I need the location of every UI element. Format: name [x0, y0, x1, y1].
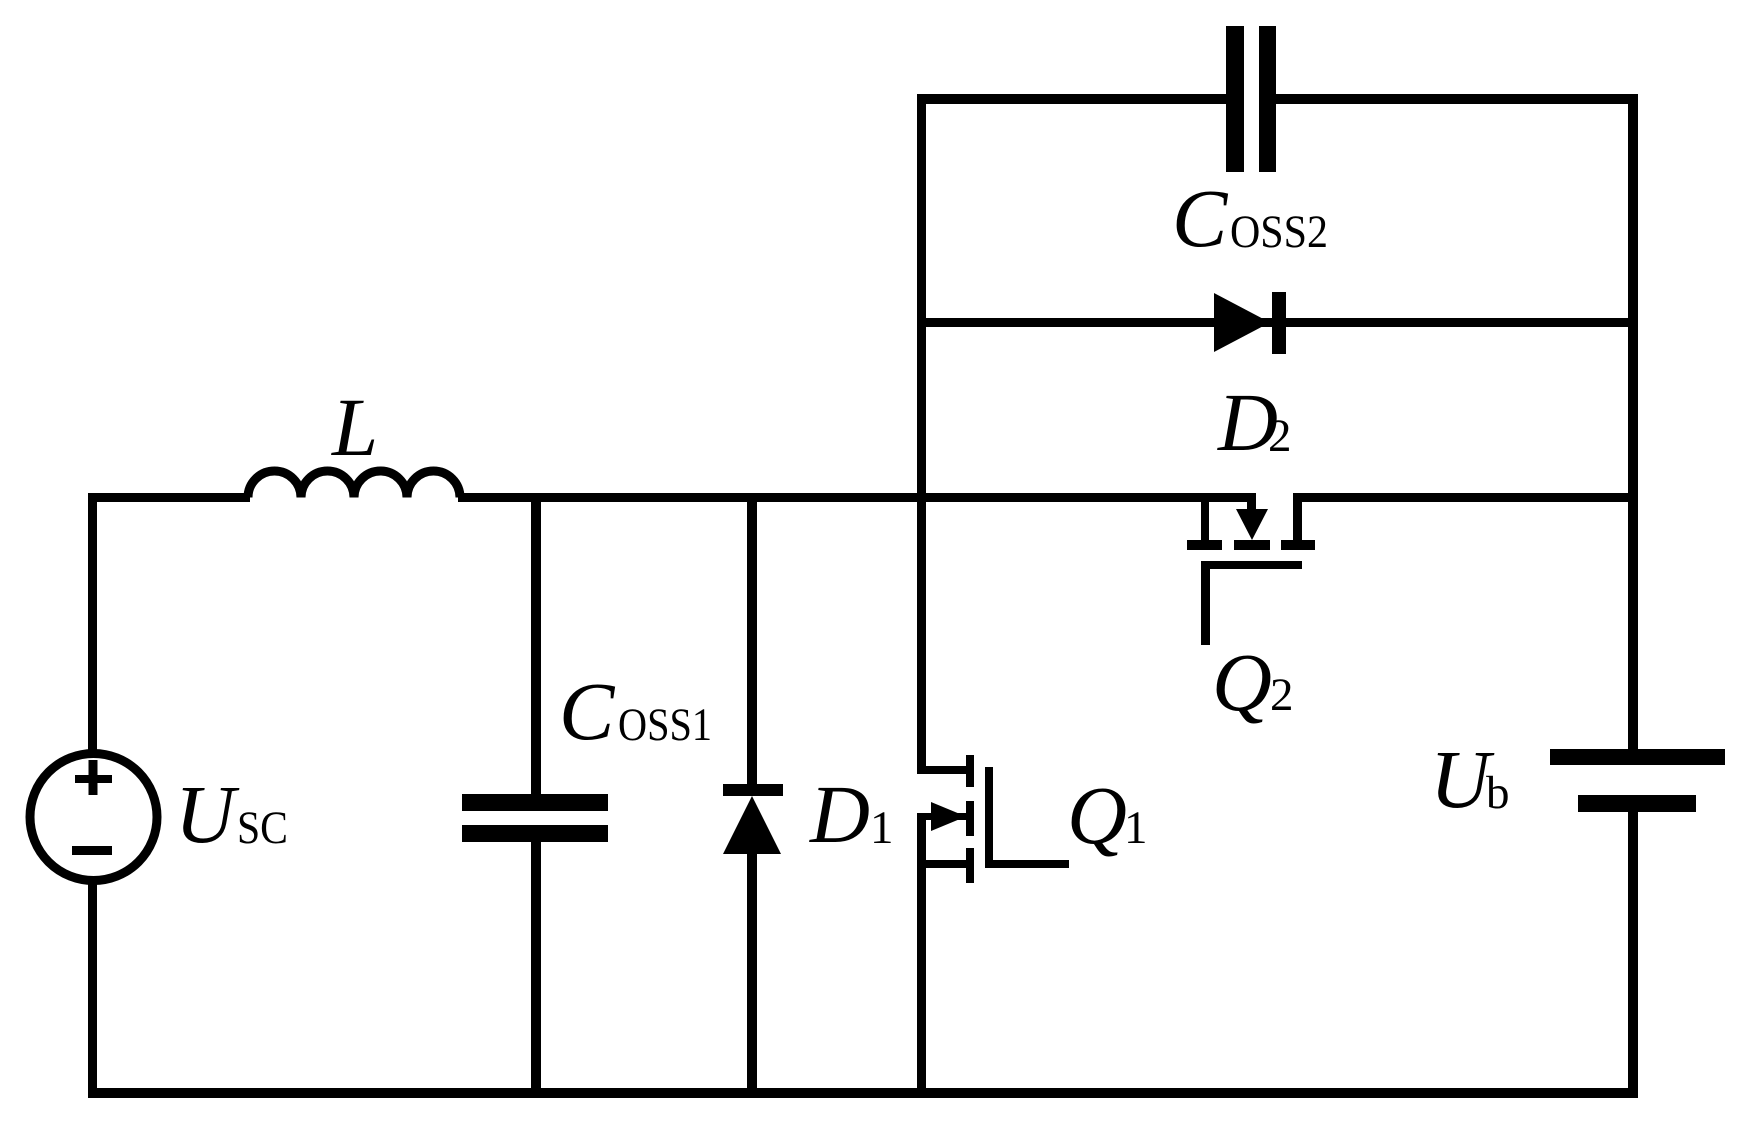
label D2 [1217, 376, 1292, 468]
label Coss1 [559, 665, 712, 757]
label U_SC [175, 768, 288, 860]
wire D1 upper [747, 493, 757, 784]
diode D1 [723, 784, 783, 854]
diode D2 [1214, 292, 1286, 354]
svg-text:b: b [1486, 767, 1510, 819]
top rail left segment [917, 94, 1226, 104]
capacitor Coss2 [1226, 26, 1276, 172]
svg-text:1: 1 [870, 802, 894, 854]
svg-text:OSS1: OSS1 [618, 699, 712, 751]
capacitor Coss1 [462, 794, 608, 842]
label D1 [809, 768, 894, 860]
label U_b [1430, 733, 1510, 825]
wire right vertical upper [1628, 94, 1638, 749]
battery U_b [1550, 749, 1725, 812]
wire Coss1 lower [531, 842, 541, 1098]
svg-text:C: C [1172, 172, 1229, 264]
label Q1 [1067, 769, 1148, 861]
svg-text:D: D [809, 768, 870, 860]
wire Q1 source leg lower [917, 813, 926, 1098]
svg-text:Q: Q [1212, 636, 1272, 728]
wire top bus right segment [1293, 493, 1638, 502]
svg-text:OSS2: OSS2 [1230, 206, 1328, 258]
label Coss2 [1172, 172, 1328, 264]
svg-text:L: L [331, 381, 378, 473]
MOSFET Q2 [1187, 493, 1315, 645]
svg-text:1: 1 [1124, 802, 1148, 854]
svg-text:2: 2 [1268, 410, 1292, 462]
MOSFET Q1 [917, 755, 1069, 883]
wire D1 lower [747, 852, 757, 1098]
svg-text:Q: Q [1067, 769, 1127, 861]
wire left leg upper [88, 493, 97, 751]
svg-text:2: 2 [1270, 669, 1294, 721]
wire Q1 drain and top box left vertical [917, 94, 926, 774]
label Q2 [1212, 636, 1294, 728]
wire left leg lower [88, 884, 97, 1098]
wire D2 line [917, 318, 1638, 327]
wire top bus center segment [458, 493, 1256, 502]
inductor L [248, 471, 460, 498]
wire right vertical lower [1628, 812, 1638, 1098]
wire top bus left segment [88, 493, 250, 502]
svg-text:SC: SC [237, 802, 288, 854]
svg-text:C: C [559, 665, 616, 757]
voltage source U_SC [30, 754, 157, 881]
svg-text:U: U [175, 768, 240, 860]
wire Coss1 upper [531, 493, 541, 794]
bottom rail [88, 1088, 1638, 1098]
top rail right segment [1276, 94, 1638, 104]
